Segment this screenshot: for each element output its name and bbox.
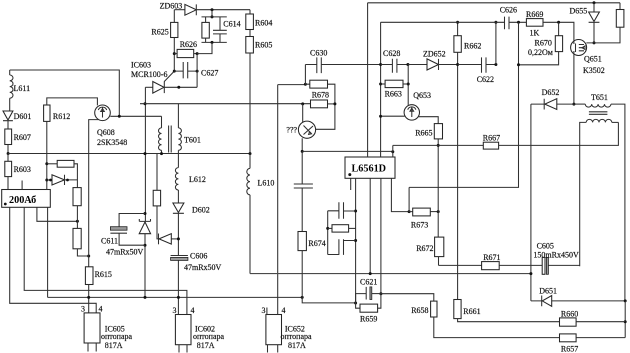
resistor R673 <box>409 187 440 229</box>
resistor R678 pair <box>305 65 336 130</box>
svg-text:L611: L611 <box>14 84 31 93</box>
svg-text:MCR100-6: MCR100-6 <box>131 70 167 79</box>
node Q651 source <box>572 103 575 106</box>
svg-text:T601: T601 <box>184 136 201 145</box>
capacitor C621 <box>356 278 381 304</box>
node left rail / wire A junction <box>7 152 10 155</box>
wire 200A6 pin1 to IC605 pin4 (wire C) <box>10 207 97 313</box>
svg-text:47mRx50V: 47mRx50V <box>106 248 144 257</box>
wire L6561D comp pin rail <box>354 178 357 304</box>
svg-text:R607: R607 <box>14 133 31 142</box>
svg-text:C628: C628 <box>383 49 400 58</box>
optocoupler IC652 <box>262 306 313 353</box>
svg-text:R671: R671 <box>483 253 500 262</box>
wire rail into L6561D top (from C630 line) <box>367 3 369 157</box>
diode D655 <box>570 3 600 45</box>
capacitor C627 <box>173 62 219 78</box>
MOSFET Q653 <box>404 65 431 121</box>
svg-text:IC603: IC603 <box>131 61 151 70</box>
svg-text:D602: D602 <box>192 206 210 215</box>
svg-text:R678: R678 <box>312 91 329 100</box>
svg-text:оптопара: оптопара <box>281 332 313 341</box>
svg-text:3: 3 <box>173 306 177 315</box>
resistor R615 <box>85 267 112 313</box>
resistor R671 <box>439 253 543 270</box>
capacitor C626 <box>500 6 527 30</box>
capacitor C622 <box>458 57 498 84</box>
resistor R612 <box>44 98 98 190</box>
zener on anode rail (unlabeled) <box>139 212 150 299</box>
wire thyristor cathode rail down <box>196 54 198 88</box>
svg-text:R663: R663 <box>385 90 402 99</box>
wire D652 rail down <box>529 104 532 301</box>
wire L6561D pin8 top right <box>392 145 394 157</box>
resistor R625 <box>151 10 178 71</box>
transformer T601 <box>158 104 200 168</box>
svg-text:T651: T651 <box>591 93 608 102</box>
capacitor C628 <box>381 49 408 73</box>
svg-text:4: 4 <box>191 306 195 315</box>
wire C621 node to R658 <box>381 294 434 301</box>
wire rail C626 to R673 feed <box>409 22 520 187</box>
resistor R659 <box>356 294 381 324</box>
svg-text:D601: D601 <box>14 112 32 121</box>
svg-text:R665: R665 <box>415 129 432 138</box>
svg-text:ZD652: ZD652 <box>423 50 446 59</box>
resistor R605 <box>246 30 273 154</box>
svg-text:L6561D: L6561D <box>352 164 387 175</box>
wire L6561D mult pin rail to C621 node <box>379 178 382 295</box>
wire ZD603 top rail <box>174 9 185 11</box>
resistor small horizontal (unlabeled) <box>47 160 78 171</box>
wire rail into L6561D top (from C628 line) <box>379 22 382 157</box>
svg-text:R673: R673 <box>411 221 428 230</box>
svg-text:R657: R657 <box>561 345 578 353</box>
capacitor C605 electrolytic <box>533 242 579 275</box>
wire thyristor anode rail down <box>144 87 147 221</box>
optocoupler IC605 <box>81 305 133 352</box>
control block 200A6 <box>2 181 51 208</box>
svg-text:R625: R625 <box>151 28 168 37</box>
wire 200A6 pin3 to divider <box>37 207 79 223</box>
svg-text:R659: R659 <box>360 315 377 324</box>
wire Q608 source rail <box>89 120 99 267</box>
diode small horizontal (unlabeled) <box>47 175 78 185</box>
resistor R660 <box>560 310 626 327</box>
svg-text:R603: R603 <box>14 165 31 174</box>
MOSFET Q608 <box>95 105 128 147</box>
wire L6561D zcd pin to R673 <box>391 178 410 213</box>
transistor ??? <box>286 104 315 138</box>
resistor R663 <box>379 80 408 98</box>
svg-text:D652: D652 <box>542 88 560 97</box>
svg-text:ZD603: ZD603 <box>160 2 183 11</box>
capacitor C606 electrolytic <box>171 252 222 315</box>
svg-text:K3502: K3502 <box>583 66 605 75</box>
svg-text:R672: R672 <box>416 244 433 253</box>
wire C622 rail up <box>494 21 497 65</box>
resistor compensation (unlabeled) <box>326 211 355 255</box>
capacitor below transistor (unlabeled) <box>294 151 313 231</box>
svg-text:3: 3 <box>81 305 85 314</box>
svg-text:R670: R670 <box>535 39 552 48</box>
wire L6561D gnd pin to bus <box>369 178 372 275</box>
thyristor IC603 MCR100-6 <box>131 61 197 94</box>
svg-text:0,22Ом: 0,22Ом <box>528 48 553 57</box>
IC L6561D <box>345 157 395 178</box>
svg-text:R604: R604 <box>255 19 272 28</box>
capacitor compensation upper (unlabeled) <box>328 202 356 219</box>
resistor R662 <box>454 21 481 300</box>
resistor R626 <box>173 40 199 58</box>
svg-text:R615: R615 <box>95 270 112 279</box>
svg-text:Q651: Q651 <box>584 55 602 64</box>
node ZD603 cathode <box>211 8 214 11</box>
svg-text:D655: D655 <box>570 7 588 16</box>
wire top-left rail to Q608 drain <box>10 70 120 116</box>
diode D652 <box>531 88 574 110</box>
svg-text:R626: R626 <box>180 40 197 49</box>
svg-text:Q608: Q608 <box>97 128 115 137</box>
svg-text:3: 3 <box>262 306 266 315</box>
wire top feed <box>368 1 620 4</box>
svg-text:L610: L610 <box>258 179 275 188</box>
svg-text:4: 4 <box>282 306 286 315</box>
svg-text:R662: R662 <box>464 42 481 51</box>
svg-text:оптопара: оптопара <box>101 332 133 341</box>
svg-text:L612: L612 <box>189 175 206 184</box>
wire B horizontal <box>48 296 303 298</box>
node R612 rail taps <box>45 162 48 181</box>
resistor R672 <box>416 237 444 265</box>
svg-text:150mRx450V: 150mRx450V <box>533 251 579 260</box>
svg-text:C611: C611 <box>101 237 118 246</box>
wire R674 to C621 node <box>302 297 355 303</box>
diode D651 <box>531 287 627 307</box>
resistor R603 <box>5 154 31 190</box>
svg-text:2SK3548: 2SK3548 <box>97 138 127 147</box>
wire A main horizontal <box>8 153 250 155</box>
svg-text:R667: R667 <box>483 133 500 142</box>
wire ground bus <box>250 273 531 275</box>
resistor snubber vertical (unlabeled) <box>153 154 160 239</box>
diode D602 <box>173 203 210 256</box>
wire R667 line <box>393 144 484 146</box>
capacitor C614 block with parallel resistor <box>197 10 241 54</box>
wire 200A6 pin4 to wire B <box>47 207 49 297</box>
svg-text:1K: 1K <box>530 29 540 38</box>
inductor L611 <box>10 70 30 111</box>
wire gate drive top (y22) <box>381 21 505 23</box>
wire 200A6 pin2 to IC602 pin4 (wire A2) <box>24 207 187 314</box>
resistor R674 <box>298 232 326 298</box>
resistor R661 <box>454 300 560 322</box>
svg-text:C614: C614 <box>223 20 240 29</box>
svg-text:Q653: Q653 <box>413 91 431 100</box>
svg-text:C622: C622 <box>477 75 494 84</box>
diode snubber horizontal (unlabeled) <box>159 234 180 245</box>
svg-text:47mRx50V: 47mRx50V <box>184 263 222 272</box>
wire Q653 source to rail <box>379 115 405 118</box>
resistor snubber far right (unlabeled) <box>586 3 623 43</box>
wire Q608 drain <box>110 115 161 118</box>
svg-text:R669: R669 <box>526 10 543 19</box>
svg-text:C630: C630 <box>310 49 327 58</box>
capacitor C630 <box>305 49 380 74</box>
resistor R604 <box>246 10 273 30</box>
svg-text:C606: C606 <box>190 252 207 261</box>
svg-text:C605: C605 <box>537 242 554 251</box>
wire emitter node to L6561D pin <box>301 138 395 153</box>
resistor R607 <box>5 129 31 154</box>
optocoupler IC602 <box>173 306 225 353</box>
resistor R665 <box>415 117 442 237</box>
svg-text:R605: R605 <box>255 41 272 50</box>
svg-text:4: 4 <box>99 305 103 314</box>
wire IC652 pin4 rail <box>278 83 307 315</box>
svg-text:D651: D651 <box>539 287 557 296</box>
transformer T651 <box>574 93 625 301</box>
svg-text:R661: R661 <box>463 307 480 316</box>
capacitor compensation lower (unlabeled) <box>328 239 356 255</box>
resistor vertical upper (unlabeled) <box>73 171 81 228</box>
svg-text:C627: C627 <box>201 69 218 78</box>
inductor L610 <box>247 152 275 274</box>
capacitor C611 electrolytic <box>101 214 145 257</box>
svg-text:R674: R674 <box>308 239 325 248</box>
svg-text:C621: C621 <box>360 278 377 287</box>
svg-text:???: ??? <box>286 126 297 135</box>
svg-text:оптопара: оптопара <box>193 332 225 341</box>
svg-text:817A: 817A <box>288 341 306 350</box>
wire L6561D pin stub <box>350 178 352 190</box>
diode D601 <box>3 111 31 129</box>
inductor L612 <box>175 168 205 203</box>
resistor R658 <box>411 301 559 338</box>
svg-text:200Аб: 200Аб <box>9 195 36 206</box>
svg-text:C626: C626 <box>500 6 517 15</box>
zener ZD652 <box>408 50 458 71</box>
resistor R670 <box>519 22 563 65</box>
resistor vertical lower (unlabeled) <box>73 228 90 257</box>
svg-text:R658: R658 <box>411 306 428 315</box>
resistor R657 <box>560 334 626 353</box>
resistor R667 <box>483 122 619 149</box>
MOSFET Q651 <box>571 40 605 105</box>
wire gate feed horizontal (y104) <box>140 102 311 105</box>
node wire B junctions <box>89 296 304 299</box>
wire right edge rail <box>624 301 627 338</box>
zener ZD603 <box>160 2 250 16</box>
svg-text:817A: 817A <box>197 341 215 350</box>
svg-text:R612: R612 <box>53 112 70 121</box>
svg-text:R660: R660 <box>561 310 578 319</box>
svg-text:817A: 817A <box>105 341 123 350</box>
resistor R669 <box>526 10 574 40</box>
node C628/ZD652 <box>406 63 409 66</box>
